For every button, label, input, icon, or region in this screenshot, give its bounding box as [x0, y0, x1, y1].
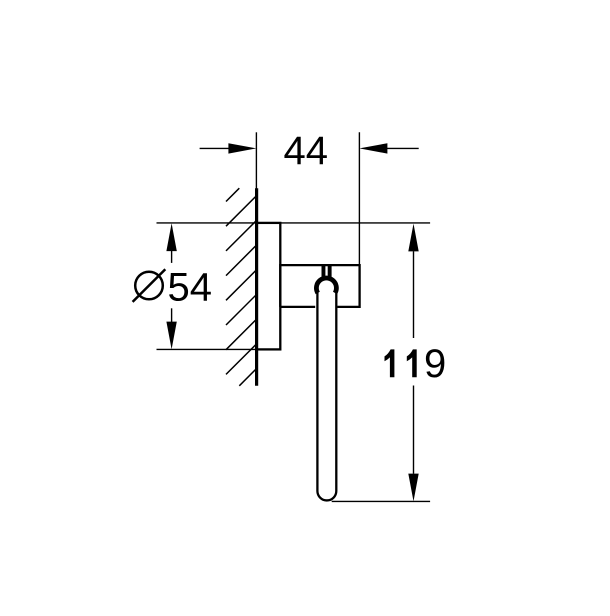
dim 119 up arrowhead [408, 224, 418, 252]
dim 54 line lower segment [171, 308, 173, 322]
ring band [317, 288, 336, 500]
ring knuckle [316, 278, 336, 293]
dim 54 up arrowhead [166, 223, 176, 251]
dim 44 right arrowhead [359, 143, 387, 153]
dim 44 left tail [200, 147, 229, 149]
dim 44 right extension line [358, 132, 360, 264]
diameter symbol circle [135, 272, 163, 300]
wall hatching [226, 188, 257, 386]
holder body [280, 265, 359, 307]
svg-text:54: 54 [168, 266, 213, 310]
ring pivot stem [322, 264, 332, 278]
dim 119 down arrowhead [408, 474, 418, 502]
dim 54 bottom extension line [157, 348, 259, 350]
svg-text:9: 9 [424, 342, 446, 386]
dim 44 left extension line [255, 132, 257, 188]
diameter symbol slash [133, 269, 166, 302]
dim 54 line upper segment [171, 251, 173, 263]
dim 44 left arrowhead [228, 143, 256, 153]
dim 119 line upper segment [413, 251, 415, 338]
dim 119 bottom extension line [332, 500, 430, 502]
dim 119 line lower segment [413, 386, 415, 474]
wall line [255, 188, 258, 386]
dim 54 down arrowhead [166, 322, 176, 350]
mounting plate [257, 223, 281, 350]
dim 119 label [385, 342, 447, 386]
svg-text:44: 44 [284, 129, 329, 173]
shared top extension line (plate top / 119 top) [157, 222, 431, 224]
dim 44 right tail [387, 147, 419, 149]
